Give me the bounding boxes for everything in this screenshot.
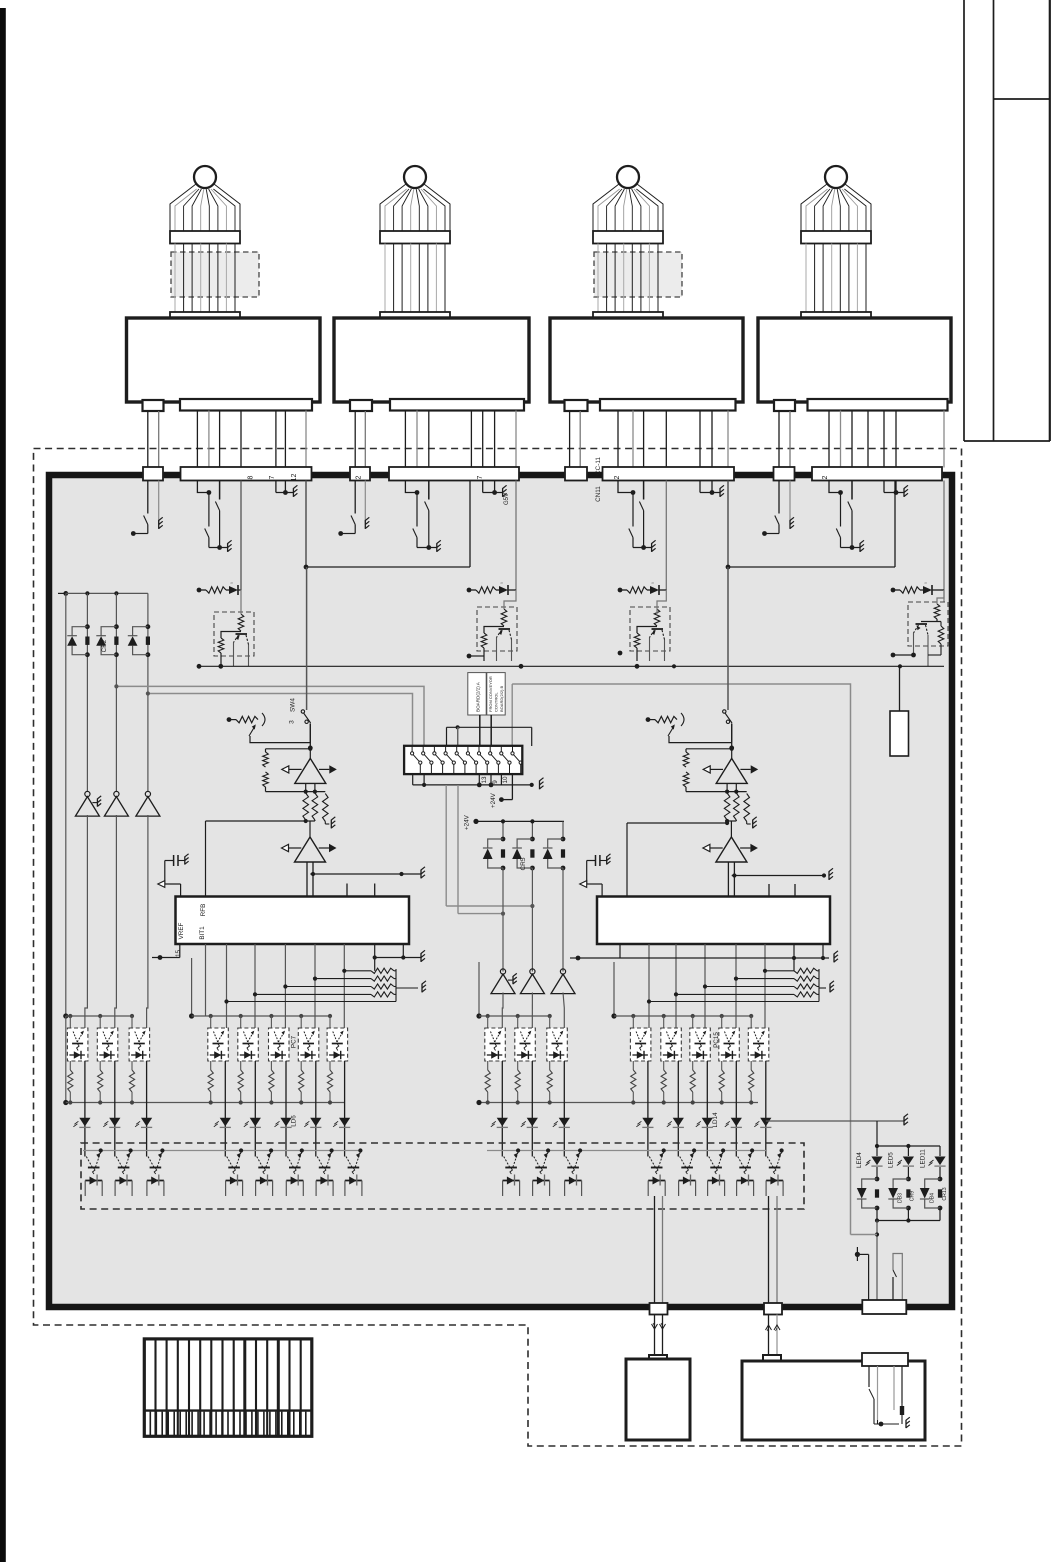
- svg-text:13: 13: [481, 776, 488, 784]
- wire opto return rail L: [63, 1016, 344, 1105]
- ground pins W1-7/12: [276, 481, 298, 497]
- node box2 junction: [874, 1403, 910, 1428]
- DIP switch SW1: [404, 746, 522, 774]
- transistor Q3 driver (dashed module): [630, 607, 670, 661]
- wire opto rail R2: [611, 962, 753, 1028]
- svg-text:CR2: CR2: [101, 639, 108, 652]
- transistor Q24 output + diode: [708, 1148, 726, 1196]
- wire drive 10: [531, 1061, 533, 1157]
- resistor R2 / diode CR6: [467, 581, 516, 595]
- svg-text:VREF: VREF: [178, 922, 185, 939]
- label box FROM CONVEYOR CONTROL: [468, 673, 505, 715]
- opto-isolator PC11: [547, 1028, 568, 1061]
- wire U2 AGND: [732, 868, 833, 880]
- wire drive 12: [647, 1061, 649, 1157]
- buffer U5A: [75, 791, 101, 816]
- LED LD13: [667, 1118, 684, 1128]
- LED LD11: [553, 1118, 570, 1128]
- wire drive 4: [224, 1061, 226, 1157]
- label LD6: [291, 1115, 298, 1127]
- cable bundle W1: [170, 166, 259, 325]
- wire drive 8: [344, 1061, 346, 1157]
- LED LD14: [696, 1118, 713, 1128]
- svg-text:LD6: LD6: [291, 1115, 298, 1127]
- LED LD1: [73, 1118, 90, 1128]
- connector P21: [763, 1355, 781, 1367]
- transistor Q16 output + diode: [286, 1148, 304, 1196]
- wire Q4 input: [937, 590, 944, 604]
- diode CR3 snubber: [128, 624, 151, 657]
- wire hook switch: [893, 1254, 902, 1301]
- node U2 bias junction: [570, 956, 620, 961]
- label CC-11: [595, 457, 602, 475]
- buffer U6C: [551, 969, 575, 994]
- svg-text:12: 12: [291, 474, 298, 482]
- connector P22: [862, 1353, 908, 1366]
- opto-isolator PC2: [97, 1028, 118, 1061]
- wire to paper sensor A: [652, 1315, 666, 1356]
- wire main emitter rail: [199, 664, 944, 668]
- IC U2 driver: [597, 897, 830, 945]
- M1 pin header (long): [180, 399, 312, 411]
- transistor Q17 output + diode: [316, 1148, 334, 1196]
- diode DB3/CR9 snubber: [888, 1177, 915, 1211]
- svg-text:DB3: DB3: [898, 1193, 904, 1203]
- wire Q3 input: [657, 590, 666, 614]
- power +24V rail: [464, 814, 565, 839]
- power +24V tap: [490, 774, 512, 808]
- opto-isolator PC1: [67, 1028, 88, 1061]
- motor/solenoid block M2: [334, 318, 529, 402]
- transistor Q15 output + diode: [256, 1148, 274, 1196]
- svg-text:G5V: G5V: [504, 493, 510, 505]
- ground pins W3: [700, 481, 724, 497]
- opto-isolator PC4: [208, 1028, 229, 1061]
- M2 pin header (small): [350, 400, 372, 411]
- svg-text:CN11: CN11: [595, 486, 602, 502]
- M4 pin header (small): [774, 400, 795, 411]
- transistor Q26 output + diode: [766, 1148, 784, 1196]
- sensor unit box1: [626, 1359, 690, 1440]
- wire bus rail B: [146, 691, 413, 746]
- wire bus rail A: [114, 684, 850, 1235]
- diode CR9 snubber: [857, 1177, 880, 1211]
- wire W3 pin: [665, 481, 667, 591]
- svg-text:+24V: +24V: [490, 792, 497, 808]
- interlock switch S1 + ground: [131, 481, 163, 536]
- potentiometer VR2 / switch SW5: [646, 567, 735, 750]
- wire output base rail R: [487, 1150, 766, 1152]
- node VREF junction: [152, 955, 180, 960]
- transistor Q21 output + diode: [565, 1148, 583, 1196]
- dashed harness boundary: [34, 449, 962, 1447]
- transistor Q1 driver (dashed module): [214, 612, 254, 666]
- svg-text:CR13: CR13: [942, 1187, 948, 1200]
- wires M2 to board connector: [355, 411, 516, 468]
- buffer U6B: [520, 969, 544, 994]
- wire output bus B: [769, 1196, 778, 1303]
- wire drive 9: [501, 1061, 503, 1157]
- sensor unit box2: [742, 1361, 925, 1440]
- svg-text:PC7: PC7: [291, 1035, 298, 1048]
- wire opto return rail R: [476, 1100, 758, 1105]
- M3 pin header (small): [565, 400, 588, 411]
- ground pins G5V: [483, 481, 510, 506]
- wire U2 gnd rail: [620, 951, 838, 963]
- pin 15 label: [175, 950, 182, 958]
- connector CN (W4 aux): [774, 467, 795, 481]
- wire drive 13: [677, 1061, 679, 1157]
- svg-text:DB4: DB4: [930, 1193, 936, 1203]
- opto-isolator PC14: [690, 1028, 711, 1061]
- page left margin bar: [0, 8, 6, 1562]
- wire verticals to buffers: [66, 593, 148, 1016]
- resistor array R40 (right): [485, 1061, 754, 1103]
- ground pins W4: [884, 481, 908, 497]
- interlock switch S6 + ground: [762, 481, 794, 536]
- svg-text:2: 2: [614, 475, 621, 479]
- label PC15: [713, 1032, 720, 1048]
- svg-text:2: 2: [822, 475, 829, 479]
- wire output bus A: [655, 1196, 663, 1303]
- transistor Q12 output + diode: [115, 1148, 133, 1196]
- M4 pin header (long): [808, 399, 948, 411]
- wires M3 to board connector: [570, 411, 728, 468]
- connector CN (W3 main): [603, 467, 735, 481]
- connector TB1 (terminal grid): [144, 1339, 311, 1436]
- wire opto rail R1: [476, 962, 551, 1028]
- connector CN (W1 main): [181, 467, 312, 481]
- transistor Q18 output + diode: [345, 1148, 363, 1196]
- wire U2 top stubs: [769, 884, 795, 897]
- connector CN (W2 aux): [350, 467, 370, 481]
- wire opto rail L2: [189, 958, 332, 1028]
- LED LD15: [725, 1118, 742, 1128]
- capacitor C1 input: [158, 854, 189, 897]
- svg-text:BOARD(2/2) B: BOARD(2/2) B: [499, 685, 504, 712]
- transistor Q22 output + diode: [648, 1148, 666, 1196]
- svg-text:8: 8: [248, 475, 255, 479]
- svg-text:15: 15: [175, 950, 182, 958]
- LED LED11: [920, 1149, 946, 1168]
- LED LD4: [214, 1118, 231, 1128]
- wire LED column feed: [875, 1121, 940, 1156]
- opto-isolator PC5: [238, 1028, 258, 1061]
- wire DIP output rail: [413, 774, 544, 789]
- diode CR5 snubber C: [543, 837, 566, 871]
- LED LD6: [275, 1118, 292, 1128]
- wire CR2 feed rail: [58, 591, 148, 596]
- wire U1 AGND: [310, 867, 425, 879]
- wire P22 leads: [878, 1366, 903, 1420]
- wire drive 3: [146, 1061, 148, 1157]
- wire U1 top stubs: [347, 884, 375, 897]
- connector CN21: [764, 1303, 782, 1315]
- diode CR5 snubber B: [512, 837, 535, 871]
- opto-isolator PC6: [269, 1028, 290, 1061]
- M1 pin header (small): [143, 400, 164, 411]
- wire CR5 to buffers: [503, 868, 563, 972]
- label CN11: [595, 486, 602, 502]
- wire DIP to CR5 feeds: [446, 785, 534, 916]
- opto-isolator PC3: [129, 1028, 150, 1061]
- svg-text:BIT1: BIT1: [199, 926, 206, 940]
- connector CN (W4 main): [812, 467, 942, 481]
- wire U1 gnd rail: [373, 950, 425, 962]
- wire drive 14: [706, 1061, 708, 1157]
- interlock switch chain S5 + ground: [618, 481, 656, 552]
- svg-text:3: 3: [289, 720, 296, 724]
- transistor Q25 output + diode: [737, 1148, 755, 1196]
- svg-text:CR5: CR5: [520, 857, 527, 870]
- svg-text:RFB: RFB: [200, 904, 207, 917]
- LED LD7: [304, 1118, 321, 1128]
- IC U1 driver: [176, 897, 410, 945]
- cable bundle W2: [380, 166, 450, 325]
- resistor R4 / diode CR8: [891, 581, 944, 602]
- transistor Q20 output + diode: [533, 1148, 551, 1196]
- wire drive 5: [254, 1061, 256, 1157]
- wire drive 16: [765, 1061, 767, 1157]
- diode CR1 snubber: [67, 624, 90, 657]
- wire DIP gray feeds: [457, 727, 459, 746]
- wire output rail link: [766, 1114, 908, 1151]
- node Q1 emitter dots: [197, 664, 224, 669]
- wire DIP feed rail: [447, 725, 532, 746]
- wire W4 pin: [943, 481, 945, 591]
- M3 pin header (long): [600, 399, 736, 411]
- dashed output transistor region: [81, 1143, 804, 1209]
- connector CN (W1 aux): [143, 467, 163, 481]
- wire Q1 input: [240, 590, 242, 614]
- LED LD10: [521, 1118, 538, 1128]
- svg-text:10: 10: [502, 776, 509, 784]
- opto-isolator PC16: [748, 1028, 769, 1061]
- opto-isolator PC12: [630, 1028, 651, 1061]
- opto-isolator PC10: [515, 1028, 536, 1061]
- wire Q2 input: [504, 590, 516, 609]
- transistor Q14 output + diode: [226, 1148, 244, 1196]
- connector P20: [649, 1355, 667, 1367]
- wire drive 11: [563, 1061, 565, 1157]
- resistor R1 / diode CR4: [197, 481, 241, 596]
- page corner table: [964, 0, 1050, 441]
- svg-text:PC15: PC15: [713, 1032, 720, 1048]
- svg-text:+24V: +24V: [464, 814, 471, 830]
- resistor ladder R10-R13: [224, 968, 426, 1003]
- opto-isolator PC7: [298, 1028, 319, 1061]
- opto-isolator PC9: [485, 1028, 506, 1061]
- svg-text:LED5: LED5: [888, 1152, 895, 1168]
- motor/solenoid block M4: [758, 318, 951, 402]
- svg-text:7: 7: [269, 475, 276, 479]
- LED LD3: [135, 1118, 152, 1128]
- wire drive 6: [285, 1061, 287, 1157]
- node Q4 emitter dots: [891, 653, 916, 658]
- wire drive 2: [114, 1061, 116, 1157]
- connector J5 (blank): [890, 666, 909, 756]
- label PC7: [291, 1035, 298, 1048]
- LED LD12: [636, 1118, 653, 1128]
- motor/solenoid block M1: [127, 318, 321, 402]
- wire drive 1: [84, 1061, 86, 1157]
- interlock switch S3 + ground: [338, 481, 369, 536]
- diode CR2 snubber: [96, 624, 119, 657]
- buffer U6A: [491, 969, 517, 994]
- LED LD8: [333, 1118, 350, 1128]
- connector CN (W3 aux): [565, 467, 587, 481]
- svg-text:BOARD(2/2) A: BOARD(2/2) A: [476, 681, 481, 712]
- switch in box2: [869, 1366, 874, 1424]
- label LD14: [712, 1112, 719, 1128]
- node Q3 emitter dots: [618, 651, 640, 669]
- wire LED column to connector: [851, 1221, 880, 1301]
- svg-text:LD14: LD14: [712, 1112, 719, 1128]
- svg-text:7: 7: [477, 475, 484, 479]
- wire buffers to optos L: [85, 815, 148, 1028]
- resistor R3 / diode CR7: [618, 581, 667, 595]
- potentiometer VR1 / switch SW4: [227, 567, 313, 750]
- wire U2 output pins: [578, 944, 823, 1028]
- interlock switch chain S7 + ground: [829, 481, 864, 552]
- wire drive 15: [735, 1061, 737, 1157]
- LED LED5: [888, 1152, 915, 1168]
- LED LD16: [754, 1118, 771, 1128]
- transistor Q23 output + diode: [679, 1148, 697, 1196]
- transistor Q2 driver (dashed module): [477, 607, 517, 661]
- node sense junction: [855, 1247, 869, 1300]
- svg-text:FROM CONVEYOR: FROM CONVEYOR: [488, 676, 493, 712]
- label DIP pins: [481, 776, 509, 784]
- diode CR5 snubber A: [483, 837, 506, 871]
- wire buffers to optos M: [502, 993, 564, 1029]
- diode DB4/CR13 snubber: [920, 1177, 948, 1211]
- wire W3 pin12 bus: [726, 481, 895, 570]
- wire output base rail L: [83, 1150, 362, 1152]
- interlock switch chain S4 + ground: [405, 481, 440, 552]
- svg-text:CC-11: CC-11: [595, 457, 602, 475]
- wires M4 to board connector: [779, 411, 944, 468]
- resistor array R30 (left): [68, 1061, 333, 1103]
- connector CN20: [650, 1303, 668, 1315]
- svg-text:LED11: LED11: [920, 1149, 927, 1168]
- opto-isolator PC8: [327, 1028, 348, 1061]
- transistor Q13 output + diode: [147, 1148, 165, 1196]
- wire drive 7: [315, 1061, 317, 1157]
- LED LD2: [103, 1118, 120, 1128]
- wire control inputs: [480, 715, 491, 753]
- connector CN (W2 main): [389, 467, 519, 481]
- wire to paper sensor B: [766, 1315, 781, 1356]
- connector CN22: [862, 1300, 906, 1314]
- opto-isolator PC15: [719, 1028, 740, 1061]
- wire bus rail C: [511, 684, 513, 746]
- svg-text:LED4: LED4: [856, 1152, 863, 1168]
- wires M1 to board connector: [148, 411, 306, 468]
- buffer U5C: [136, 791, 160, 816]
- LED LED4: [856, 1152, 883, 1168]
- resistor ladder R20-R23: [647, 968, 834, 1003]
- PCB board outline (gray panel): [49, 475, 952, 1307]
- svg-text:SW4: SW4: [290, 698, 297, 712]
- M2 pin header (long): [390, 399, 524, 411]
- wire W1 pin12 bus: [304, 481, 470, 570]
- node Q2 emitter dots: [467, 654, 524, 669]
- opto-isolator PC13: [661, 1028, 682, 1061]
- wire W2 pin7: [515, 481, 517, 591]
- LED LD5: [244, 1118, 261, 1128]
- wire LED column return: [875, 1208, 940, 1223]
- wire opto rail L1: [63, 1013, 134, 1028]
- cable bundle W4: [801, 166, 871, 325]
- motor/solenoid block M3: [550, 318, 743, 402]
- transistor Q4 driver (dashed module): [908, 602, 948, 666]
- LED LD9: [491, 1118, 508, 1128]
- wire LED column mid: [877, 1167, 940, 1179]
- op-amp U3A/U3B stage: [206, 747, 337, 897]
- wire U1 output pins: [180, 944, 403, 1028]
- transistor Q19 output + diode: [503, 1148, 521, 1196]
- svg-text:CONTROL: CONTROL: [494, 692, 499, 712]
- cable bundle W3: [593, 166, 682, 325]
- interlock switch chain S2 + ground: [197, 481, 231, 552]
- svg-text:2: 2: [356, 475, 363, 479]
- transistor Q11 output + diode: [85, 1148, 103, 1196]
- svg-text:9: 9: [492, 780, 499, 784]
- capacitor C2 input: [580, 854, 611, 897]
- svg-text:CR9: CR9: [910, 1191, 916, 1201]
- op-amp U4A/U4B stage: [627, 747, 758, 897]
- buffer U5B: [104, 791, 128, 816]
